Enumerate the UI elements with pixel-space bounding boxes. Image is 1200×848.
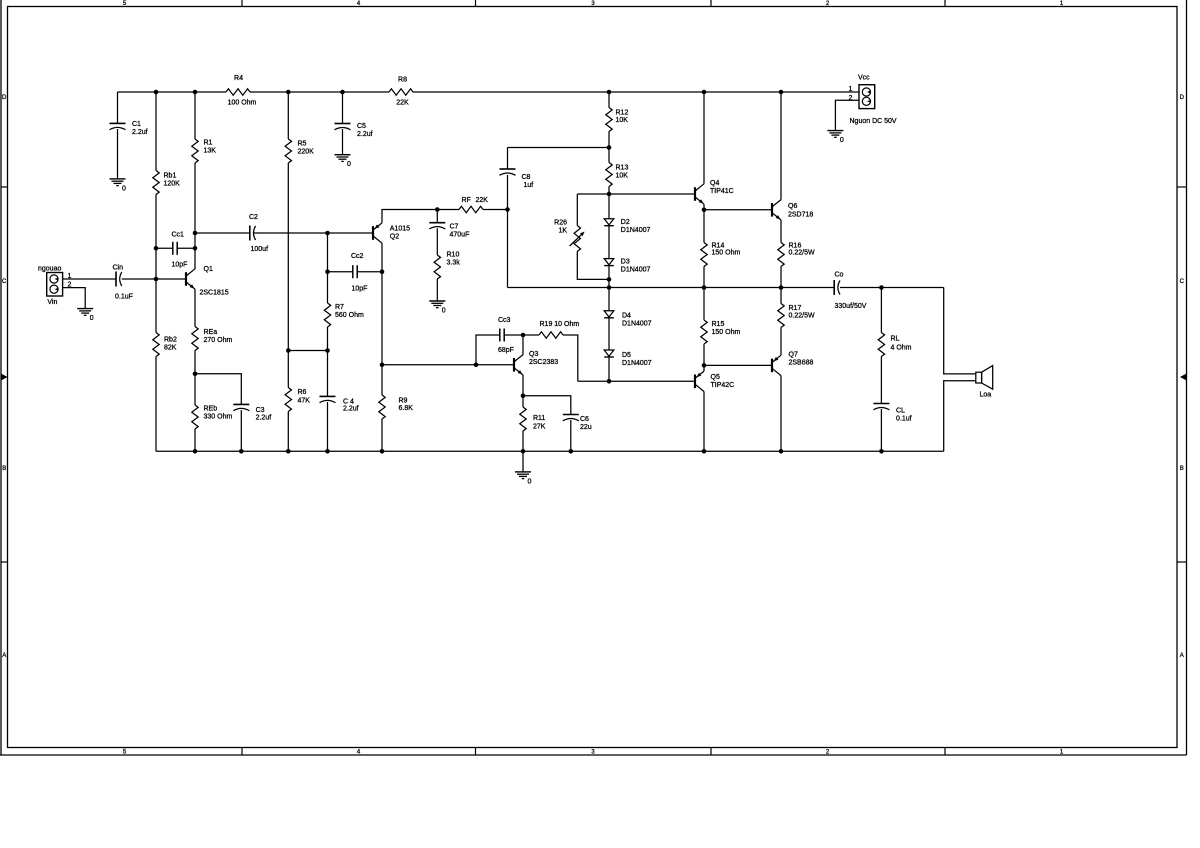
wire R19 branch — [523, 335, 578, 381]
node ground rail REb — [193, 449, 198, 454]
node Q2 collector R9 — [380, 363, 385, 368]
svg-text:150 Ohm: 150 Ohm — [712, 250, 741, 257]
wire Q3 emitter to C6 — [523, 396, 571, 452]
svg-text:27K: 27K — [533, 424, 546, 431]
capacitor Co — [834, 272, 867, 311]
wire REa-REb — [194, 351, 196, 406]
resistor R26 variable — [554, 220, 584, 252]
svg-text:D: D — [2, 95, 7, 101]
svg-text:R5: R5 — [298, 141, 307, 148]
svg-text:R10: R10 — [447, 252, 460, 259]
node C7 tap — [435, 207, 440, 212]
ground R10 — [429, 301, 446, 315]
svg-text:2.2uf: 2.2uf — [256, 415, 272, 422]
wire speaker top — [944, 288, 976, 374]
svg-text:R11: R11 — [533, 415, 545, 422]
resistor RL — [878, 333, 911, 357]
wire R16 to output — [780, 267, 782, 288]
svg-text:330uf/50V: 330uf/50V — [835, 303, 867, 310]
svg-text:22K: 22K — [396, 100, 409, 107]
node top rail R1 — [193, 90, 198, 95]
node R15 Q5 emitter — [702, 363, 707, 368]
capacitor C4 — [320, 396, 359, 412]
svg-text:13K: 13K — [204, 148, 217, 155]
node ground rail R11 — [521, 449, 526, 454]
svg-text:Q5: Q5 — [711, 374, 720, 381]
svg-text:2.2uf: 2.2uf — [357, 131, 373, 138]
svg-text:470uF: 470uF — [450, 232, 470, 239]
node Cc2 right — [380, 269, 385, 274]
wire C5 branch — [342, 92, 344, 155]
resistor R17 — [778, 304, 815, 328]
wire Vcc top rail — [118, 91, 860, 93]
resistor R11 — [520, 407, 546, 431]
wire C2 net — [195, 232, 373, 234]
svg-text:10K: 10K — [616, 117, 629, 124]
svg-text:R15: R15 — [712, 321, 725, 328]
svg-text:R4: R4 — [234, 75, 243, 82]
diode D3 — [604, 259, 650, 274]
svg-text:2.2uf: 2.2uf — [343, 406, 359, 413]
wire R14 leads — [703, 210, 705, 288]
node Cc3 tap — [474, 363, 479, 368]
svg-text:Q2: Q2 — [390, 234, 399, 241]
wire R10 to ground — [436, 279, 438, 301]
svg-text:10pF: 10pF — [352, 286, 368, 293]
svg-text:Q6: Q6 — [788, 203, 797, 210]
svg-text:D5: D5 — [622, 352, 631, 359]
wire R12 leads — [608, 92, 610, 148]
wire R15 leads — [703, 288, 705, 366]
svg-text:0.1uf: 0.1uf — [896, 416, 912, 423]
svg-text:0: 0 — [90, 315, 94, 322]
svg-text:Cc2: Cc2 — [351, 253, 364, 260]
svg-text:D1N4007: D1N4007 — [622, 360, 652, 367]
svg-text:Cin: Cin — [113, 265, 124, 272]
svg-text:CL: CL — [896, 408, 905, 415]
node R1 Cc1 — [193, 246, 198, 251]
transistor Q4 — [695, 180, 734, 204]
svg-text:100uf: 100uf — [251, 246, 269, 253]
svg-text:RL: RL — [891, 336, 900, 343]
node Rb input — [154, 277, 159, 282]
wire R7 column — [327, 233, 329, 451]
svg-text:Q4: Q4 — [710, 180, 719, 187]
wire Q6 base net — [704, 209, 772, 211]
node R5 tie — [286, 348, 291, 353]
capacitor Cc1 — [172, 232, 188, 269]
svg-text:560 Ohm: 560 Ohm — [335, 312, 364, 319]
svg-text:Co: Co — [835, 272, 844, 279]
svg-text:100 Ohm: 100 Ohm — [228, 100, 257, 107]
node ground rail Q5 collector — [702, 449, 707, 454]
svg-text:0.22/5W: 0.22/5W — [789, 250, 815, 257]
resistor R14 — [701, 243, 741, 267]
wire ground rail — [156, 450, 944, 452]
svg-text:R26: R26 — [554, 220, 567, 227]
node ground rail C4 — [325, 449, 330, 454]
svg-text:R14: R14 — [712, 243, 725, 250]
svg-text:270 Ohm: 270 Ohm — [204, 337, 233, 344]
wire Q4 emitter node — [703, 204, 705, 210]
wire diode column lower — [608, 288, 610, 382]
node R7 tie — [325, 348, 330, 353]
resistor R7 — [324, 303, 364, 327]
svg-text:Rb1: Rb1 — [164, 173, 177, 180]
node output RL — [879, 285, 884, 290]
svg-text:R12: R12 — [616, 110, 629, 117]
svg-text:C8: C8 — [522, 174, 531, 181]
svg-text:2SC1815: 2SC1815 — [200, 290, 229, 297]
svg-text:D1N4007: D1N4007 — [621, 267, 651, 274]
node ground rail CL — [879, 449, 884, 454]
wire Q4 collector — [703, 92, 705, 184]
wire RF to C8 node — [483, 209, 508, 211]
transistor Q6 — [772, 200, 813, 220]
svg-text:2SD718: 2SD718 — [788, 212, 813, 219]
svg-text:RF: RF — [462, 197, 471, 204]
node output R14 R15 — [702, 285, 707, 290]
wire Q3 base net — [382, 364, 514, 366]
border center marker left — [1, 374, 8, 381]
svg-text:Vcc: Vcc — [858, 75, 870, 82]
node top rail R12 — [607, 90, 612, 95]
resistor R13 — [606, 163, 629, 187]
node Rb1 Cc1 — [154, 246, 159, 251]
svg-text:TIP42C: TIP42C — [711, 382, 735, 389]
svg-text:Rb2: Rb2 — [164, 337, 177, 344]
svg-text:2SB688: 2SB688 — [789, 360, 814, 367]
transistor Q7 — [772, 352, 814, 376]
svg-text:C 4: C 4 — [343, 399, 354, 406]
transistor Q5 — [695, 371, 734, 391]
svg-text:C5: C5 — [357, 123, 366, 130]
wire C8 up — [508, 148, 610, 210]
wire Q5 base net — [578, 380, 695, 382]
svg-text:R6: R6 — [298, 389, 307, 396]
wire Q3 collector — [522, 335, 524, 355]
ground C5 — [335, 155, 352, 169]
svg-text:REb: REb — [204, 406, 218, 413]
svg-text:C2: C2 — [249, 214, 258, 221]
svg-text:0.22/5W: 0.22/5W — [789, 313, 815, 320]
svg-text:Q7: Q7 — [789, 352, 798, 359]
svg-text:120K: 120K — [164, 181, 181, 188]
svg-text:1uf: 1uf — [524, 182, 534, 189]
wire Q7 base net — [704, 364, 772, 366]
transistor Q3 — [514, 351, 558, 375]
svg-text:R19 10 Ohm: R19 10 Ohm — [540, 321, 580, 328]
node REa REb — [193, 372, 198, 377]
node output R16 R17 — [779, 285, 784, 290]
svg-text:2.2uf: 2.2uf — [132, 129, 148, 136]
wire Q5 emitter — [703, 365, 705, 371]
svg-text:C3: C3 — [256, 407, 265, 414]
svg-text:R16: R16 — [789, 243, 802, 250]
diode D2 — [604, 219, 650, 234]
capacitor C8 — [500, 169, 534, 189]
node Q3 emitter — [521, 394, 526, 399]
svg-text:A: A — [2, 653, 6, 659]
svg-text:C: C — [1180, 279, 1185, 285]
wire input pin2 to ground — [63, 288, 86, 309]
svg-text:Nguon DC 50V: Nguon DC 50V — [850, 118, 897, 125]
transistor Q2 — [373, 223, 410, 243]
wire center ground stem — [522, 451, 524, 472]
node ground rail C6 — [569, 449, 574, 454]
svg-text:22K: 22K — [476, 197, 489, 204]
svg-text:D1N4007: D1N4007 — [622, 321, 652, 328]
wire Cc1 — [156, 247, 195, 249]
wire input signal — [63, 278, 186, 280]
resistor Rb2 — [153, 333, 177, 357]
node top rail C5 — [340, 90, 345, 95]
wire Cc2 — [328, 271, 383, 273]
node top rail Q6 collector — [779, 90, 784, 95]
svg-text:D: D — [1180, 95, 1185, 101]
resistor REb — [192, 405, 233, 429]
svg-text:1: 1 — [849, 86, 853, 93]
svg-text:C1: C1 — [132, 121, 141, 128]
wire RL leads — [880, 288, 882, 452]
wire output rail — [508, 287, 944, 289]
diode D5 — [604, 350, 651, 367]
wire Q5 collector to rail — [703, 392, 705, 452]
capacitor Cin — [113, 265, 133, 301]
svg-text:R7: R7 — [335, 304, 344, 311]
speaker Loa — [976, 366, 993, 399]
ground C1 — [110, 179, 127, 193]
node C8 R13 — [607, 145, 612, 150]
node Cc3 Q3 collector — [521, 333, 526, 338]
svg-text:R8: R8 — [398, 77, 407, 84]
wire tie R6-C4 — [288, 350, 327, 352]
resistor REa — [192, 327, 233, 351]
capacitor C3 — [233, 404, 271, 421]
svg-text:10K: 10K — [616, 173, 629, 180]
svg-text:10pF: 10pF — [172, 262, 188, 269]
svg-text:Q1: Q1 — [204, 266, 213, 273]
resistor R15 — [701, 320, 741, 344]
node R1 C2 — [193, 231, 198, 236]
svg-text:Cc3: Cc3 — [498, 317, 511, 324]
svg-text:B: B — [1180, 466, 1184, 472]
node C2 Cc2 — [325, 231, 330, 236]
svg-text:C6: C6 — [580, 416, 589, 423]
resistor R1 — [192, 139, 216, 163]
svg-text:0: 0 — [840, 137, 844, 144]
resistor R8 — [389, 77, 413, 107]
connector J2 Vcc — [849, 75, 897, 126]
wire Q6 collector — [780, 92, 782, 200]
svg-text:R17: R17 — [789, 305, 802, 312]
node R13 Q4 base — [607, 192, 612, 197]
resistor R19 — [539, 321, 579, 338]
svg-text:C: C — [2, 279, 7, 285]
resistor R5 — [285, 139, 314, 163]
diode D4 — [604, 311, 651, 328]
svg-text:4 Ohm: 4 Ohm — [891, 345, 912, 352]
transistor Q1 — [186, 266, 229, 297]
svg-text:0.1uF: 0.1uF — [115, 294, 133, 301]
svg-text:Cc1: Cc1 — [172, 232, 185, 239]
wire REb to rail — [194, 429, 196, 451]
svg-text:C7: C7 — [450, 224, 459, 231]
wire R11 leads — [522, 396, 524, 452]
svg-text:6.8K: 6.8K — [399, 405, 414, 412]
node Cc2 left — [325, 269, 330, 274]
node ground rail R6 — [286, 449, 291, 454]
svg-text:R1: R1 — [204, 140, 213, 147]
wire R13 leads — [608, 148, 610, 195]
ground center — [515, 472, 532, 486]
ground input — [77, 309, 94, 323]
svg-text:D4: D4 — [622, 313, 631, 320]
wire Q2 emitter to RF — [382, 210, 459, 223]
wire Q2 collector — [381, 243, 383, 365]
capacitor C6 — [563, 415, 592, 432]
wire Cc3 branch — [476, 335, 523, 365]
resistor Rb1 — [153, 171, 180, 195]
wire R17 leads — [780, 288, 782, 356]
svg-text:TIP41C: TIP41C — [710, 188, 734, 195]
svg-text:22u: 22u — [580, 424, 592, 431]
ground Vcc — [827, 131, 844, 145]
svg-text:0: 0 — [122, 185, 126, 192]
svg-text:3.3k: 3.3k — [447, 260, 461, 267]
svg-text:D3: D3 — [621, 259, 630, 266]
capacitor Cc3 — [498, 317, 514, 354]
node top rail R5 — [286, 90, 291, 95]
svg-text:0: 0 — [442, 308, 446, 315]
svg-text:220K: 220K — [298, 149, 315, 156]
node R26 bottom — [607, 277, 612, 282]
svg-text:R9: R9 — [399, 398, 408, 405]
wire Q7 collector to rail — [780, 376, 782, 452]
capacitor C2 — [249, 214, 268, 253]
svg-text:ngouao: ngouao — [38, 266, 61, 273]
resistor RF — [459, 197, 488, 213]
svg-text:47K: 47K — [298, 397, 311, 404]
wire R1 column — [194, 92, 196, 269]
resistor R6 — [285, 388, 310, 412]
svg-text:R13: R13 — [616, 165, 629, 172]
border center marker right — [1180, 374, 1187, 381]
resistor R12 — [606, 108, 629, 132]
wire C7 branch — [436, 210, 438, 256]
node output diodes — [607, 285, 612, 290]
capacitor C5 — [335, 123, 373, 138]
svg-text:A1015: A1015 — [390, 226, 410, 233]
wire C1 branch — [117, 92, 119, 179]
resistor R4 — [226, 75, 257, 107]
wire Q4 base net — [577, 193, 695, 195]
wire speaker bottom — [944, 381, 976, 452]
capacitor C7 — [429, 223, 469, 239]
wire R5 column — [287, 92, 289, 451]
capacitor CL — [873, 404, 911, 423]
node top rail Rb1 — [154, 90, 159, 95]
node D5 Q5 base — [607, 379, 612, 384]
svg-text:1K: 1K — [558, 228, 567, 235]
svg-text:D2: D2 — [621, 219, 630, 226]
connector J1 ngouao — [38, 266, 72, 307]
node Q4 emitter — [702, 208, 707, 213]
wire Rb1 column — [155, 92, 157, 451]
wire C8 down to output — [507, 210, 509, 288]
svg-text:Loa: Loa — [980, 392, 992, 399]
wire R26 branch — [577, 194, 609, 279]
svg-text:Vin: Vin — [47, 299, 57, 306]
wire Q3 emitter — [522, 375, 524, 396]
svg-text:82K: 82K — [164, 345, 177, 352]
resistor R16 — [778, 243, 815, 267]
svg-text:0: 0 — [528, 478, 532, 485]
svg-text:150 Ohm: 150 Ohm — [712, 329, 741, 336]
capacitor C1 — [110, 121, 148, 136]
node ground rail R9 — [380, 449, 385, 454]
svg-text:D1N4007: D1N4007 — [621, 227, 651, 234]
svg-text:B: B — [2, 466, 6, 472]
wire C3 branch — [195, 374, 241, 452]
svg-text:Q3: Q3 — [529, 351, 538, 358]
wire Q6 emitter to R16 — [780, 220, 782, 243]
svg-text:2: 2 — [849, 95, 853, 102]
wire R9 leads — [381, 365, 383, 452]
node top rail Q4 collector — [702, 90, 707, 95]
node ground rail Q7 collector — [779, 449, 784, 454]
svg-text:0: 0 — [347, 161, 351, 168]
node RF C8 — [505, 207, 510, 212]
svg-text:68pF: 68pF — [498, 347, 514, 354]
resistor R9 — [379, 395, 413, 419]
wire Q1 emitter — [194, 289, 196, 326]
svg-text:330 Ohm: 330 Ohm — [204, 414, 233, 421]
resistor R10 — [434, 252, 460, 280]
svg-text:REa: REa — [204, 329, 218, 336]
node ground rail C3 — [239, 449, 244, 454]
wire Vcc pin2 to ground — [835, 100, 859, 130]
capacitor Cc2 — [351, 253, 367, 293]
svg-text:2SC2383: 2SC2383 — [529, 359, 558, 366]
svg-text:A: A — [1180, 653, 1184, 659]
wire diode column upper — [608, 194, 610, 288]
